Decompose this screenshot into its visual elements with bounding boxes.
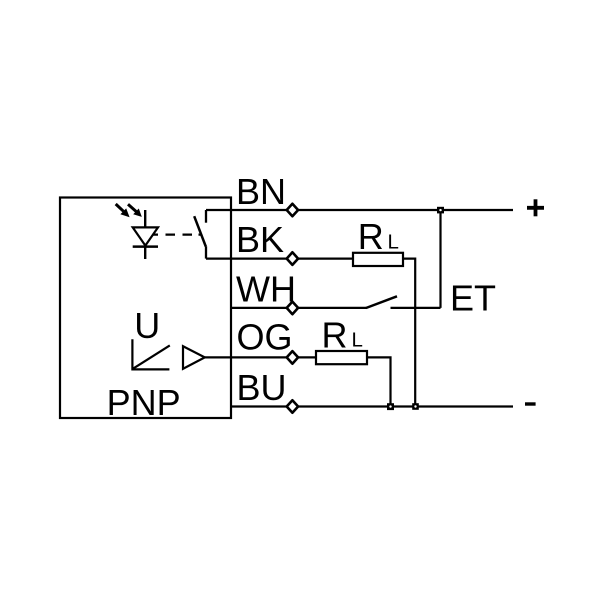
junction BU/RL1 — [412, 403, 419, 410]
resistor RL1 — [353, 253, 403, 266]
connector diamond BK — [287, 252, 298, 265]
connector diamond BU — [287, 400, 298, 413]
svg-text:OG: OG — [237, 317, 293, 358]
sensor body box — [60, 198, 231, 419]
svg-text:ET: ET — [450, 278, 496, 319]
switch S2 blade (teach contact) — [366, 296, 397, 308]
wire OG — [205, 356, 316, 358]
svg-text:R: R — [358, 216, 384, 257]
svg-text:BK: BK — [236, 219, 284, 260]
wire BU — [231, 405, 513, 407]
svg-text:L: L — [388, 231, 399, 254]
svg-text:PNP: PNP — [107, 382, 181, 423]
wire WH — [231, 307, 367, 309]
svg-text:BN: BN — [236, 171, 286, 212]
svg-text:BU: BU — [237, 367, 287, 408]
svg-text:L: L — [352, 329, 363, 352]
connector diamond BN — [287, 204, 298, 217]
svg-text:R: R — [322, 314, 348, 355]
light arrow 2 — [128, 204, 142, 217]
resistor RL2 — [316, 351, 367, 364]
label plus — [527, 199, 544, 216]
connector diamond WH — [287, 302, 298, 315]
switch S1 (sensor output contact) — [194, 210, 206, 259]
light arrow 1 — [116, 204, 130, 217]
wire ET vertical — [439, 210, 441, 308]
wire WH to ET — [391, 307, 441, 309]
wire BN — [206, 209, 513, 211]
connector diamond OG — [287, 351, 298, 364]
photodiode D1 — [133, 210, 158, 259]
svg-text:U: U — [134, 305, 160, 346]
junction BU/RL2 — [387, 403, 394, 410]
dashed actuation link — [153, 234, 201, 236]
wire RL2 lead to BU — [367, 357, 391, 406]
svg-text:WH: WH — [236, 268, 296, 309]
amplifier A1 — [183, 346, 205, 369]
wire BK — [206, 258, 353, 260]
junction BN/ET — [437, 207, 444, 214]
output characteristic symbol (axis) — [132, 339, 169, 369]
label minus — [525, 402, 536, 405]
wire RL1 lead to BU — [403, 259, 415, 407]
